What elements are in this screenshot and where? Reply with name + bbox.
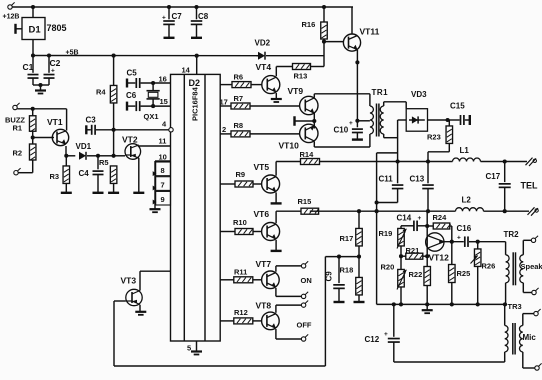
rectifier VD3 — [406, 90, 427, 131]
node R5 top — [112, 154, 116, 158]
svg-text:R26: R26 — [482, 262, 496, 271]
wire +5V rail — [33, 55, 258, 57]
pin 15 label — [160, 97, 168, 106]
resistor R10 — [220, 218, 261, 235]
svg-text:10: 10 — [159, 153, 167, 162]
capacitor C9 — [325, 257, 345, 302]
capacitor C8 — [191, 5, 209, 38]
wire TR2 pri top — [478, 242, 506, 255]
svg-text:+: + — [51, 68, 55, 75]
wire VT7 emitter — [276, 288, 302, 297]
IC D2 PIC16F84 box — [171, 74, 221, 341]
svg-text:R12: R12 — [234, 308, 248, 317]
transistor VT8 — [256, 301, 280, 330]
capacitor C6 — [126, 91, 171, 111]
node R26 top — [476, 240, 480, 244]
svg-text:C6: C6 — [126, 91, 137, 100]
ground pins 8 7 9 — [150, 209, 161, 212]
node rail B 376 — [375, 209, 379, 213]
wire R16 to VT11 base — [324, 41, 344, 43]
capacitor C5 — [127, 69, 171, 89]
terminal Mic b — [535, 363, 542, 370]
capacitor C2 — [44, 56, 61, 86]
wire VT8 emitter — [276, 329, 302, 339]
svg-text:16: 16 — [159, 75, 167, 84]
resistor R12 — [220, 308, 261, 324]
wire TR3 sec bottom — [523, 352, 535, 368]
svg-text:TR3: TR3 — [508, 302, 522, 311]
node C11 bottom — [375, 200, 379, 204]
svg-text:C5: C5 — [127, 69, 138, 78]
node 5V d — [195, 54, 199, 58]
svg-text:VT5: VT5 — [254, 162, 270, 172]
svg-text:R13: R13 — [294, 72, 308, 81]
ground VT3 — [135, 312, 146, 315]
label Speak — [521, 262, 542, 271]
wire vert 376 — [377, 153, 398, 305]
transistor VT10 symbol — [279, 124, 318, 150]
svg-text:VD1: VD1 — [76, 142, 92, 151]
svg-text:C7: C7 — [172, 12, 183, 21]
terminal TEL upper — [526, 158, 537, 166]
node C9 top — [337, 255, 341, 259]
svg-text:R22: R22 — [409, 270, 423, 279]
resistor R26 trimmer — [471, 242, 496, 305]
node rail A vd3 — [396, 159, 400, 163]
node R1 R2 — [31, 135, 35, 139]
node TR2 rail — [503, 302, 507, 306]
svg-text:C8: C8 — [198, 12, 209, 21]
pin 10 wire — [155, 160, 171, 162]
transistor VT4 — [256, 62, 280, 94]
resistor R6 — [220, 73, 262, 88]
svg-text:L2: L2 — [462, 196, 472, 205]
transistor VT5 — [254, 162, 280, 193]
resistor R7 — [220, 94, 300, 109]
svg-text:+: + — [384, 331, 388, 338]
transistor VT11 — [343, 27, 379, 52]
svg-text:C10: C10 — [334, 126, 349, 135]
terminal BUZZ bottom — [14, 168, 21, 175]
svg-text:L1: L1 — [460, 146, 470, 155]
wire TR1 center tap — [357, 120, 370, 122]
capacitor C13 — [410, 162, 434, 212]
terminal TEL lower — [528, 207, 539, 215]
svg-text:R6: R6 — [234, 73, 244, 82]
svg-text:17: 17 — [220, 98, 228, 107]
pin 16 label — [159, 75, 167, 84]
svg-text:9: 9 — [161, 195, 165, 204]
resistor R3 — [50, 156, 72, 193]
svg-text:VD2: VD2 — [255, 39, 271, 48]
transistor VT12 — [426, 233, 449, 263]
terminal +12V input — [3, 2, 20, 20]
pin 10 label — [159, 153, 167, 162]
node R17 R18 — [357, 255, 361, 259]
resistor R11 — [220, 268, 261, 283]
node emitters — [312, 119, 316, 123]
label BUZZ — [5, 116, 25, 125]
svg-text:R16: R16 — [302, 20, 316, 29]
resistor R23 — [427, 120, 453, 162]
node xtal top — [151, 81, 155, 85]
wire VT7 collector — [276, 266, 302, 272]
wire rail B — [276, 210, 529, 212]
wire top rail — [12, 6, 353, 8]
wire VT9 collector — [314, 94, 370, 106]
svg-text:R20: R20 — [381, 263, 395, 272]
svg-text:7: 7 — [161, 180, 165, 189]
resistor R2 — [13, 138, 36, 173]
transistor VT1 — [47, 117, 69, 146]
node C3 R4 — [112, 128, 116, 132]
svg-text:R4: R4 — [96, 88, 106, 97]
wire rail A — [320, 161, 528, 163]
wire VT12 out — [444, 241, 464, 243]
label PIC16F84 — [191, 86, 200, 121]
resistor R18 — [340, 257, 365, 302]
pin 11 label — [159, 137, 167, 146]
wire D1 out — [32, 40, 34, 56]
node VD3 out — [446, 118, 450, 122]
svg-text:VT4: VT4 — [256, 62, 272, 72]
inductor L1 — [453, 146, 481, 162]
voltage regulator D1 7805 — [22, 18, 67, 40]
node R22 rail — [425, 302, 429, 306]
svg-text:D2: D2 — [189, 78, 201, 88]
resistor R4 — [96, 56, 117, 130]
wire to R5 — [98, 155, 114, 157]
svg-text:R9: R9 — [236, 170, 246, 179]
svg-text:R10: R10 — [233, 218, 247, 227]
svg-text:R5: R5 — [99, 158, 109, 167]
wire VD3 left — [398, 120, 407, 162]
svg-text:2: 2 — [222, 125, 226, 134]
svg-text:+12В: +12В — [3, 14, 20, 21]
wire VT5 collector — [275, 162, 277, 176]
wire emitters join — [313, 113, 315, 129]
resistor R9 — [220, 170, 261, 187]
node rail B r17 — [357, 209, 361, 213]
pin 11 wire — [139, 145, 171, 147]
svg-text:C16: C16 — [457, 224, 472, 233]
wire TR1 sec bottom — [384, 134, 398, 138]
svg-text:VT7: VT7 — [256, 259, 272, 269]
diode VD2 — [255, 39, 325, 60]
wire TR1 sec top — [384, 102, 407, 109]
node xtal bottom — [151, 104, 155, 108]
svg-text:Speak: Speak — [521, 262, 542, 271]
svg-text:14: 14 — [182, 66, 191, 75]
svg-text:C14: C14 — [397, 214, 412, 223]
wire to VT2 gate — [114, 155, 125, 157]
svg-text:C9: C9 — [325, 271, 334, 282]
transformer TR3 — [505, 323, 523, 355]
wire TR2 sec top — [523, 240, 531, 255]
wire base VT1 — [33, 137, 54, 139]
svg-text:R23: R23 — [427, 133, 441, 142]
svg-text:TEL: TEL — [521, 181, 539, 191]
ground audio — [422, 304, 433, 313]
svg-text:C1: C1 — [23, 62, 34, 72]
node rail B tel — [503, 209, 507, 213]
label OFF — [297, 321, 312, 330]
label +5V — [66, 50, 79, 57]
wire VT11 emitter — [356, 50, 358, 121]
node C4 — [96, 154, 100, 158]
wire VT6 emitter — [271, 240, 282, 251]
svg-text:5: 5 — [187, 344, 191, 353]
resistor R25 — [449, 242, 471, 305]
svg-text:R1: R1 — [13, 124, 23, 133]
svg-text:TR2: TR2 — [504, 230, 520, 239]
transistor VT6 — [254, 209, 280, 241]
node R26 rail — [476, 302, 480, 306]
svg-text:+: + — [418, 215, 422, 222]
crystal QX1 — [144, 83, 160, 121]
node top rail D1 — [31, 5, 35, 9]
svg-text:15: 15 — [160, 97, 168, 106]
resistor R1 — [13, 109, 36, 138]
terminal OFF a — [301, 301, 308, 308]
svg-text:C11: C11 — [379, 175, 394, 184]
wire VT3 drain — [140, 271, 171, 290]
svg-text:R2: R2 — [13, 149, 23, 158]
capacitor C17 — [486, 162, 511, 212]
svg-text:ON: ON — [301, 276, 312, 285]
pin 5 — [187, 341, 202, 355]
terminal Speak a — [531, 236, 538, 243]
terminal OFF b — [301, 334, 308, 341]
node R20 rail — [399, 302, 403, 306]
wire VT2 source — [133, 158, 144, 193]
svg-text:VT12: VT12 — [429, 253, 450, 263]
node R16 bottom — [322, 40, 326, 44]
label TR3 — [508, 302, 522, 311]
node rail B c13 — [426, 209, 430, 213]
svg-text:VT2: VT2 — [122, 135, 138, 145]
svg-text:R19: R19 — [379, 229, 393, 238]
resistor R19 — [379, 226, 407, 256]
capacitor C1 — [23, 56, 39, 86]
svg-text:8: 8 — [161, 166, 165, 175]
wire audio bottom rail — [377, 303, 505, 305]
pin 4 circle — [169, 128, 173, 132]
capacitor C14 — [397, 214, 428, 232]
node C14 R24 — [425, 224, 429, 228]
emitter tap T-bar — [295, 116, 315, 126]
svg-text:R25: R25 — [457, 269, 471, 278]
svg-text:+: + — [457, 235, 461, 242]
pin 8 box — [156, 162, 171, 176]
svg-text:+: + — [349, 120, 353, 127]
wire VD3 out — [428, 119, 448, 121]
wire TR3 sec top — [523, 314, 534, 326]
svg-text:VD3: VD3 — [411, 90, 427, 99]
svg-text:VT9: VT9 — [288, 86, 304, 96]
wire VT3 gate down long — [114, 257, 325, 366]
diode VD1 — [76, 142, 99, 160]
svg-text:QX1: QX1 — [144, 112, 159, 121]
wire VT12 base vert — [426, 211, 428, 266]
svg-text:R24: R24 — [433, 213, 448, 222]
ground VT4 — [271, 99, 282, 102]
wire C1 C2 join — [33, 83, 49, 90]
svg-text:C12: C12 — [365, 335, 380, 344]
capacitor C11 — [377, 162, 404, 203]
wire node row 256 — [325, 256, 359, 258]
wire TR2 sec bottom — [523, 283, 532, 293]
wire VT10 collector — [314, 134, 370, 147]
svg-text:R15: R15 — [298, 197, 312, 206]
wire pin4 — [114, 129, 169, 131]
node VT11 emitter — [355, 60, 359, 64]
capacitor C15 — [448, 102, 470, 126]
transistor VT7 — [256, 259, 280, 289]
node R21 base — [425, 254, 429, 258]
capacitor C12 — [365, 302, 505, 362]
resistor R13 — [293, 64, 325, 81]
transistor VT2 — [122, 135, 141, 160]
resistor R14 — [300, 150, 320, 165]
wire emitter node — [66, 155, 75, 157]
wire VT11 collector — [351, 7, 353, 34]
pin 7 box — [156, 177, 171, 191]
ground C1 C2 — [35, 91, 46, 94]
node R1 top — [31, 107, 35, 111]
svg-text:D1: D1 — [29, 25, 42, 36]
wire VT3 source — [139, 305, 141, 312]
transistor VT3 — [121, 276, 143, 306]
pin 9 box — [156, 191, 171, 205]
svg-text:OFF: OFF — [297, 321, 312, 330]
node rail A c13 — [426, 159, 430, 163]
node 5V c — [112, 54, 116, 58]
svg-text:C15: C15 — [450, 102, 465, 111]
terminal ON a — [301, 261, 308, 268]
wire VT5 emitter — [271, 192, 282, 203]
resistor R20 — [381, 256, 407, 304]
label ON — [301, 276, 312, 285]
capacitor C4 — [79, 156, 104, 193]
transistor VT9 — [288, 86, 318, 115]
node R19 R21 — [399, 254, 403, 258]
capacitor C7 — [162, 5, 182, 38]
svg-text:R3: R3 — [50, 172, 60, 181]
capacitor C3 — [86, 116, 114, 135]
resistor R5 — [99, 158, 119, 193]
terminal Speak b — [532, 288, 539, 295]
node R25 rail — [450, 302, 454, 306]
svg-text:C13: C13 — [410, 175, 425, 184]
svg-text:R7: R7 — [234, 94, 244, 103]
capacitor C10 — [334, 120, 363, 140]
wire VT4 collector — [276, 67, 292, 77]
svg-text:TR1: TR1 — [372, 88, 389, 97]
svg-text:C2: C2 — [50, 58, 61, 68]
svg-text:VT11: VT11 — [360, 27, 380, 37]
resistor R24 — [427, 213, 452, 242]
wire VT1 emitter — [65, 146, 67, 156]
svg-text:Mic: Mic — [523, 333, 537, 342]
wire TR3 pri bottom — [504, 352, 506, 362]
transformer TR2 — [504, 230, 524, 285]
resistor R16 — [302, 5, 328, 67]
wire TR3 pri top — [504, 304, 506, 325]
svg-text:R11: R11 — [234, 268, 247, 277]
svg-text:R14: R14 — [300, 150, 315, 159]
resistor R22 — [409, 267, 431, 305]
label Mic — [523, 333, 537, 342]
resistor R17 — [340, 211, 363, 256]
node rail A tel — [503, 159, 507, 163]
resistor R21 — [401, 246, 427, 259]
label TEL — [521, 181, 539, 191]
svg-text:VT3: VT3 — [121, 276, 137, 286]
resistor R15 — [298, 197, 319, 214]
capacitor C16 — [457, 224, 478, 247]
svg-text:R18: R18 — [340, 266, 354, 275]
svg-text:7805: 7805 — [47, 23, 67, 33]
wire VT6 collector — [275, 211, 277, 223]
svg-text:VT8: VT8 — [256, 301, 272, 311]
node center tap — [355, 119, 359, 123]
wire TR2 pri bottom — [505, 283, 507, 305]
wire VT4 emitter — [275, 93, 277, 99]
transformer TR1 — [370, 88, 388, 137]
pin 14 — [182, 56, 197, 75]
svg-text:11: 11 — [159, 137, 167, 146]
inductor L2 — [456, 196, 484, 212]
wire R4 R5 link — [113, 130, 115, 156]
node VT12 out — [450, 240, 454, 244]
svg-text:VT10: VT10 — [279, 141, 300, 151]
terminal Mic a — [534, 309, 541, 316]
wire buzz top — [17, 109, 66, 131]
node VT1 emitter — [64, 154, 68, 158]
wire VT3 gate — [114, 300, 126, 302]
wire VT8 collector — [276, 305, 302, 313]
wire D1 top stub — [32, 7, 34, 18]
svg-text:C17: C17 — [486, 172, 501, 181]
svg-text:R17: R17 — [340, 234, 354, 243]
node 5V b — [47, 53, 51, 57]
node 5V a — [31, 53, 35, 57]
pin 4 label — [162, 120, 167, 129]
wire pins gnd — [153, 161, 157, 209]
svg-text:R8: R8 — [234, 121, 244, 130]
resistor R8 — [220, 121, 300, 137]
svg-text:PIC16F84: PIC16F84 — [191, 86, 200, 121]
label D2 — [189, 78, 201, 88]
svg-text:C3: C3 — [86, 116, 97, 125]
input T-bar — [16, 24, 23, 34]
terminal ON b — [301, 292, 308, 299]
svg-text:C4: C4 — [79, 169, 90, 178]
wire VT5 collector to R14 — [276, 161, 300, 163]
terminal BUZZ top — [13, 103, 20, 110]
svg-text:VT1: VT1 — [47, 117, 63, 127]
svg-text:VT6: VT6 — [254, 209, 270, 219]
